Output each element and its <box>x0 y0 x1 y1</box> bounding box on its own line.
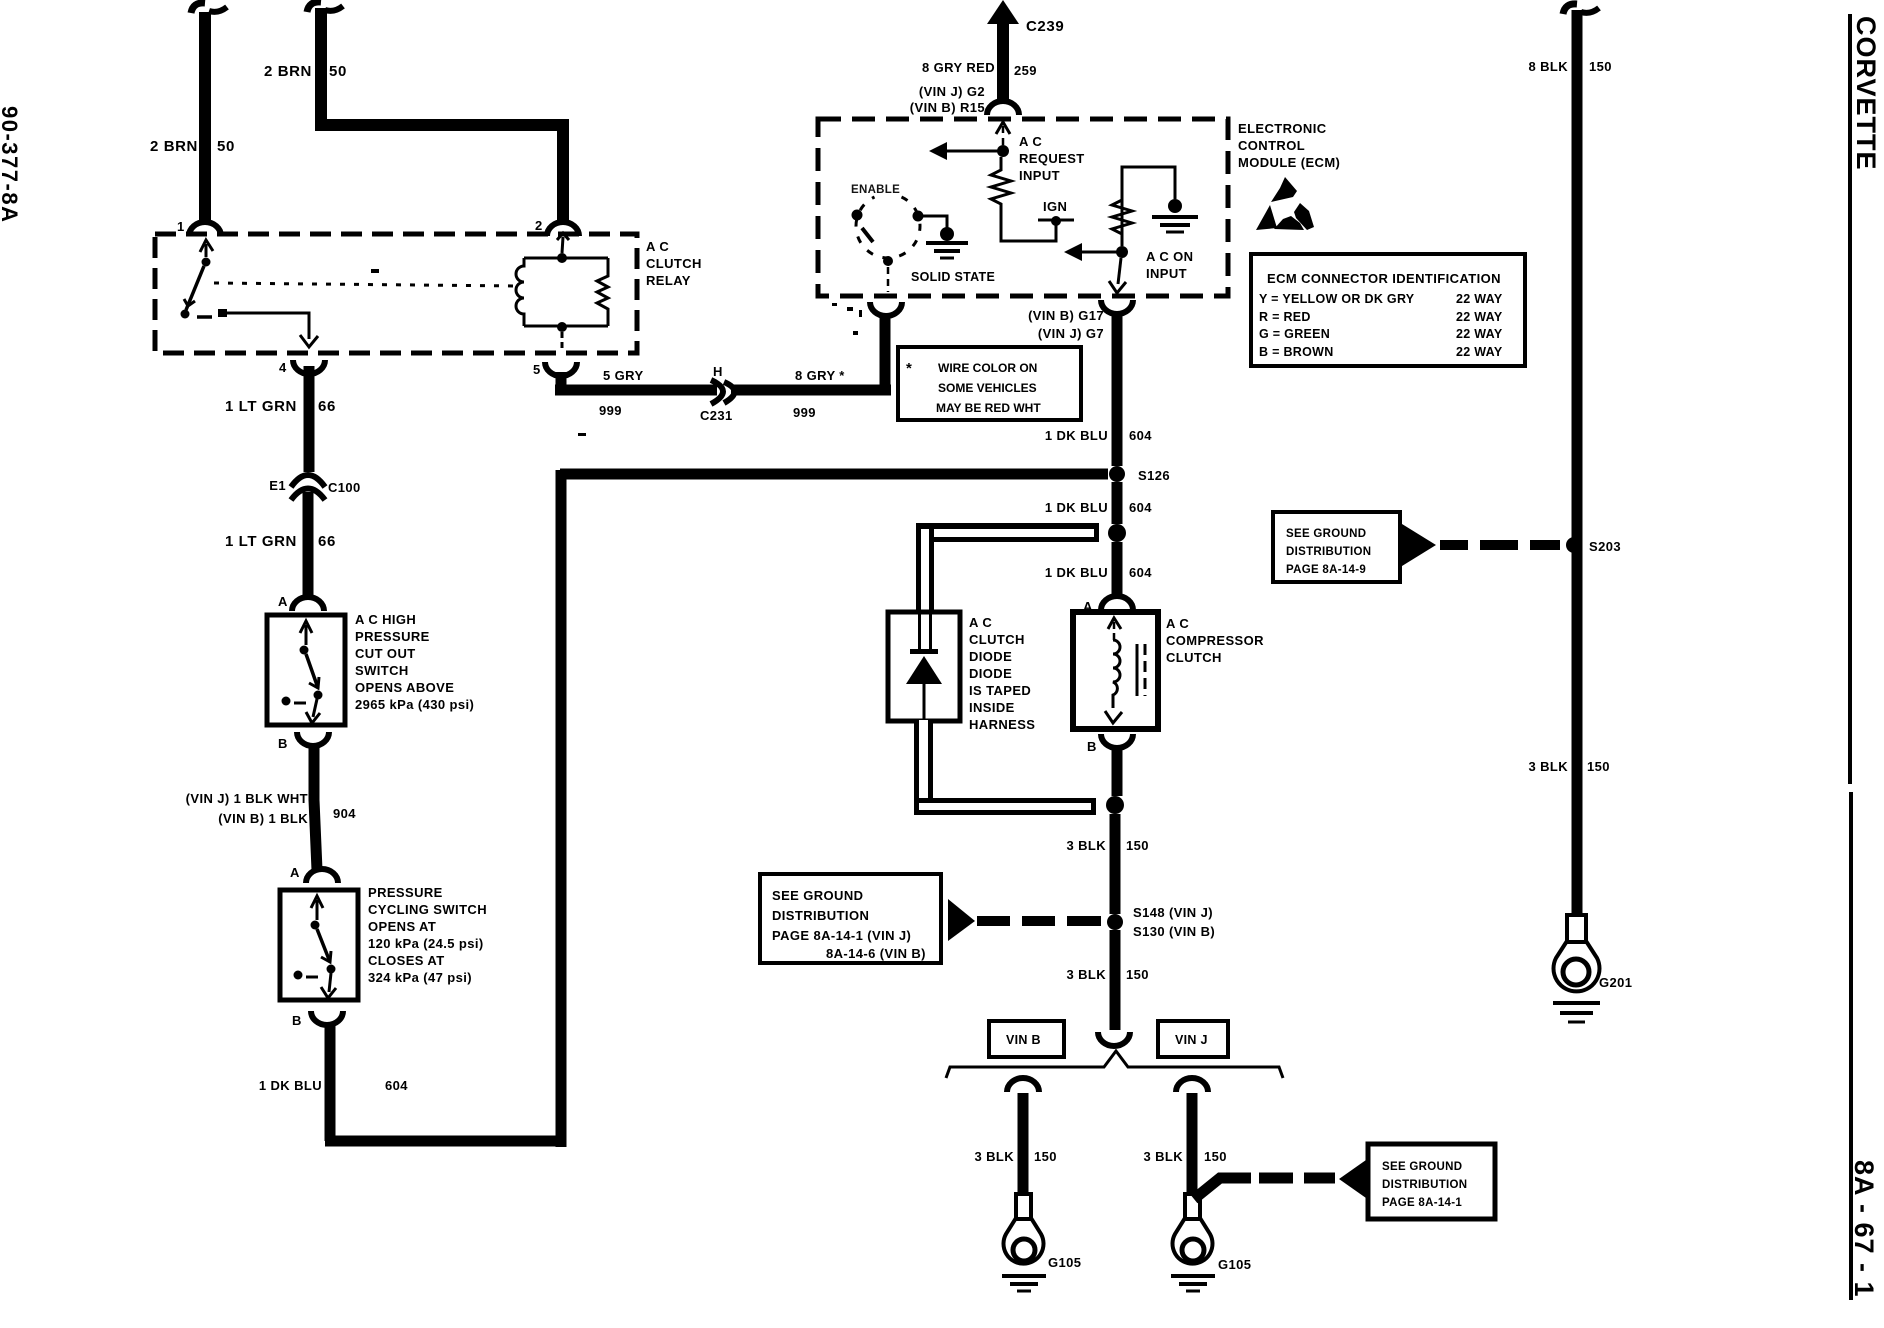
svg-text:S130 (VIN B): S130 (VIN B) <box>1133 924 1215 939</box>
clutch plates <box>1136 644 1139 696</box>
wire 1 DK BLU 604 (tap to compressor clutch) <box>1112 542 1123 598</box>
svg-text:150: 150 <box>1126 967 1149 982</box>
svg-text:150: 150 <box>1034 1149 1057 1164</box>
svg-text:B = BROWN: B = BROWN <box>1259 345 1334 359</box>
svg-text:*: * <box>906 360 912 377</box>
svg-text:HARNESS: HARNESS <box>969 717 1035 732</box>
svg-text:B: B <box>292 1013 302 1028</box>
svg-text:A: A <box>290 865 300 880</box>
svg-text:1 LT GRN: 1 LT GRN <box>225 398 297 415</box>
svg-text:SOLID STATE: SOLID STATE <box>911 270 995 284</box>
svg-text:VIN J: VIN J <box>1175 1033 1208 1047</box>
svg-text:MODULE (ECM): MODULE (ECM) <box>1238 155 1340 170</box>
svg-text:A C: A C <box>969 615 992 630</box>
svg-text:CYCLING SWITCH: CYCLING SWITCH <box>368 902 487 917</box>
svg-text:22 WAY: 22 WAY <box>1456 292 1503 306</box>
svg-text:SEE GROUND: SEE GROUND <box>772 888 863 903</box>
svg-text:G105: G105 <box>1048 1255 1081 1270</box>
svg-text:2 BRN: 2 BRN <box>264 63 312 80</box>
svg-text:S148 (VIN J): S148 (VIN J) <box>1133 905 1213 920</box>
svg-text:CLUTCH: CLUTCH <box>646 256 702 271</box>
svg-text:Y = YELLOW OR DK GRY: Y = YELLOW OR DK GRY <box>1259 292 1415 306</box>
svg-text:PAGE 8A-14-1: PAGE 8A-14-1 <box>1382 1197 1462 1209</box>
svg-text:4: 4 <box>279 360 287 375</box>
svg-text:1 LT GRN: 1 LT GRN <box>225 533 297 550</box>
svg-text:OPENS AT: OPENS AT <box>368 919 436 934</box>
connector E1 C100 <box>291 475 325 487</box>
ring terminal G105 (VIN B) <box>1016 1194 1031 1219</box>
svg-text:S126: S126 <box>1138 468 1170 483</box>
splice S126 <box>1109 466 1125 482</box>
wire 1 LT GRN 66 (relay pin 4 to C100) <box>304 366 315 472</box>
svg-text:R = RED: R = RED <box>1259 310 1311 324</box>
VIN J option box <box>1158 1021 1228 1057</box>
svg-text:PRESSURE: PRESSURE <box>355 629 430 644</box>
branch to ground distribution note <box>1194 1178 1251 1199</box>
svg-text:SOME VEHICLES: SOME VEHICLES <box>938 381 1037 395</box>
svg-text:3 BLK: 3 BLK <box>1528 759 1568 774</box>
svg-text:1: 1 <box>177 219 185 234</box>
svg-text:H: H <box>713 364 723 379</box>
svg-text:A: A <box>278 594 288 609</box>
svg-text:A C: A C <box>646 239 669 254</box>
svg-text:RELAY: RELAY <box>646 273 691 288</box>
svg-text:A C ON: A C ON <box>1146 249 1193 264</box>
see ground distribution box (G105) <box>1368 1144 1495 1219</box>
svg-text:E1: E1 <box>269 478 286 493</box>
svg-text:CUT OUT: CUT OUT <box>355 646 416 661</box>
svg-text:3 BLK: 3 BLK <box>1143 1149 1183 1164</box>
svg-text:C231: C231 <box>700 408 733 423</box>
wire 8 GRY RED 259 to C239 <box>997 16 1009 104</box>
svg-text:2: 2 <box>535 218 543 233</box>
node (diode tap, bottom) <box>1106 796 1124 814</box>
svg-text:PAGE 8A-14-9: PAGE 8A-14-9 <box>1286 564 1366 576</box>
svg-text:3 BLK: 3 BLK <box>1066 838 1106 853</box>
svg-text:2965 kPa (430 psi): 2965 kPa (430 psi) <box>355 697 474 712</box>
wire 2 BRN 50 (left feed to relay pin 1) <box>191 3 205 13</box>
svg-text:8 GRY RED: 8 GRY RED <box>922 60 995 75</box>
svg-text:50: 50 <box>329 63 347 80</box>
svg-text:OPENS ABOVE: OPENS ABOVE <box>355 680 454 695</box>
svg-text:(VIN B) R15: (VIN B) R15 <box>910 100 985 115</box>
svg-text:A C HIGH: A C HIGH <box>355 612 416 627</box>
A/C compressor clutch box <box>1073 612 1158 729</box>
svg-text:VIN B: VIN B <box>1006 1033 1041 1047</box>
svg-text:999: 999 <box>599 403 622 418</box>
relay coil and resistor <box>557 233 569 240</box>
A/C clutch diode box <box>888 612 960 721</box>
ECM connector identification box <box>1251 254 1525 366</box>
svg-text:B: B <box>1087 739 1097 754</box>
ground G105 (VIN J) <box>1171 1274 1215 1278</box>
svg-text:PRESSURE: PRESSURE <box>368 885 443 900</box>
wire 8 BLK 150 (right trunk) <box>1563 4 1577 14</box>
note: wire color box <box>898 347 1081 420</box>
ground G201 <box>1553 1001 1600 1005</box>
wire 1 DK BLU 604 (cycling switch to splice run) <box>325 470 566 1147</box>
svg-text:DISTRIBUTION: DISTRIBUTION <box>1286 546 1371 558</box>
relay switch (pins 1-4) <box>200 240 213 252</box>
splice S148/S130 <box>1107 914 1123 930</box>
wire from relay branch to S126 <box>560 469 1108 480</box>
svg-text:SEE GROUND: SEE GROUND <box>1382 1161 1462 1173</box>
svg-text:66: 66 <box>318 533 336 550</box>
svg-text:C100: C100 <box>328 480 361 495</box>
ECM pin (solid state, bottom) <box>870 302 902 316</box>
ECM pin (A/C request, top) <box>987 101 1019 115</box>
svg-text:DISTRIBUTION: DISTRIBUTION <box>1382 1179 1467 1191</box>
svg-text:(VIN B) 1 BLK: (VIN B) 1 BLK <box>218 811 308 826</box>
svg-text:G = GREEN: G = GREEN <box>1259 327 1330 341</box>
svg-text:604: 604 <box>1129 565 1152 580</box>
switch symbol (cycling) <box>311 896 323 908</box>
svg-text:22 WAY: 22 WAY <box>1456 327 1503 341</box>
svg-text:DIODE: DIODE <box>969 666 1012 681</box>
svg-text:(VIN J) G7: (VIN J) G7 <box>1038 326 1104 341</box>
svg-text:(VIN B) G17: (VIN B) G17 <box>1028 308 1104 323</box>
wire 1 BLK WHT 904 (cutout to cycling switch) <box>314 744 317 870</box>
wire (clutch to diode tap bottom) <box>1112 747 1123 796</box>
svg-text:CORVETTE: CORVETTE <box>1851 16 1881 171</box>
svg-text:CLUTCH: CLUTCH <box>969 632 1025 647</box>
svg-text:INPUT: INPUT <box>1146 266 1187 281</box>
svg-text:REQUEST: REQUEST <box>1019 151 1085 166</box>
svg-text:150: 150 <box>1587 759 1610 774</box>
wire 5 GRY 999 (relay pin 5 to ECM) <box>555 372 717 390</box>
resistor (A/C request) <box>991 157 1056 241</box>
see ground distribution box (S203) <box>1273 512 1400 582</box>
svg-text:8A-14-6 (VIN B): 8A-14-6 (VIN B) <box>826 946 926 961</box>
arrow to splice S148 <box>948 899 975 941</box>
IGN tick <box>1051 216 1061 226</box>
svg-text:999: 999 <box>793 405 816 420</box>
svg-text:A C: A C <box>1019 134 1042 149</box>
svg-text:ELECTRONIC: ELECTRONIC <box>1238 121 1327 136</box>
pressure cycling switch box <box>280 890 358 1000</box>
svg-text:90-377-8A: 90-377-8A <box>0 106 22 223</box>
wire 2 BRN 50 (feed to relay pin 2) <box>307 2 321 12</box>
svg-text:CLOSES AT: CLOSES AT <box>368 953 445 968</box>
diode D1 <box>910 649 938 654</box>
svg-text:8A - 67 - 1: 8A - 67 - 1 <box>1849 1160 1879 1298</box>
wire 3 BLK 150 (tap to S148) <box>1110 814 1121 914</box>
svg-text:CLUTCH: CLUTCH <box>1166 650 1222 665</box>
svg-text:COMPRESSOR: COMPRESSOR <box>1166 633 1264 648</box>
svg-text:DIODE: DIODE <box>969 649 1012 664</box>
svg-text:IGN: IGN <box>1043 199 1067 214</box>
switch symbol (cutout) <box>300 621 312 633</box>
wire 1 DK BLU 604 (S126 to diode tap) <box>1112 482 1123 524</box>
svg-text:3 BLK: 3 BLK <box>1066 967 1106 982</box>
svg-text:A C: A C <box>1166 616 1189 631</box>
ground wire (VIN J) <box>1176 1078 1208 1092</box>
svg-text:5 GRY: 5 GRY <box>603 368 644 383</box>
ECM pin (A/C on, bottom) <box>1101 300 1133 314</box>
hollow wire (diode bypass, top run) <box>916 523 1099 542</box>
ring terminal G201 <box>1567 915 1586 942</box>
ESD sensitivity symbol <box>1271 177 1297 202</box>
A/C high pressure cut out switch box <box>267 615 345 725</box>
wire 3 BLK 150 (S148 to VIN split) <box>1110 930 1121 1030</box>
A/C request input node <box>996 122 1010 134</box>
svg-text:22 WAY: 22 WAY <box>1456 345 1503 359</box>
electronic control module (ECM) dashed box <box>818 119 1228 296</box>
svg-text:CONTROL: CONTROL <box>1238 138 1305 153</box>
hollow wire (diode bypass, bottom run) <box>914 720 933 812</box>
svg-text:150: 150 <box>1126 838 1149 853</box>
svg-text:B: B <box>278 736 288 751</box>
ground (A/C on) <box>1168 199 1182 213</box>
svg-text:3 BLK: 3 BLK <box>974 1149 1014 1164</box>
svg-text:1 DK BLU: 1 DK BLU <box>1045 565 1108 580</box>
svg-text:INPUT: INPUT <box>1019 168 1060 183</box>
svg-text:22 WAY: 22 WAY <box>1456 310 1503 324</box>
svg-text:G105: G105 <box>1218 1257 1251 1272</box>
svg-text:(VIN J) G2: (VIN J) G2 <box>919 84 985 99</box>
see ground distribution box (S148/S130) <box>760 874 941 963</box>
svg-text:8 BLK: 8 BLK <box>1528 59 1568 74</box>
wire 1 LT GRN 66 (C100 to pressure cutout switch) <box>303 492 314 600</box>
svg-text:120 kPa (24.5 psi): 120 kPa (24.5 psi) <box>368 936 484 951</box>
node (diode tap, top) <box>1108 524 1126 542</box>
ground (solid state) <box>918 216 947 228</box>
svg-text:IS TAPED: IS TAPED <box>969 683 1031 698</box>
svg-text:5: 5 <box>533 362 541 377</box>
svg-text:66: 66 <box>318 398 336 415</box>
svg-text:ECM CONNECTOR IDENTIFICATION: ECM CONNECTOR IDENTIFICATION <box>1267 271 1501 286</box>
splice S203 <box>1566 537 1582 553</box>
svg-text:324 kPa (47 psi): 324 kPa (47 psi) <box>368 970 472 985</box>
svg-text:MAY BE RED WHT: MAY BE RED WHT <box>936 401 1041 415</box>
svg-text:DISTRIBUTION: DISTRIBUTION <box>772 908 869 923</box>
svg-text:50: 50 <box>217 138 235 155</box>
svg-text:WIRE COLOR ON: WIRE COLOR ON <box>938 361 1037 375</box>
wire end hook <box>1098 1032 1130 1046</box>
svg-text:(VIN J) 1 BLK WHT: (VIN J) 1 BLK WHT <box>186 791 308 806</box>
svg-text:2 BRN: 2 BRN <box>150 138 198 155</box>
svg-text:INSIDE: INSIDE <box>969 700 1015 715</box>
option split brace <box>946 1051 1283 1078</box>
svg-text:1 DK BLU: 1 DK BLU <box>259 1078 322 1093</box>
svg-text:604: 604 <box>1129 500 1152 515</box>
svg-text:1 DK BLU: 1 DK BLU <box>1045 428 1108 443</box>
svg-text:604: 604 <box>1129 428 1152 443</box>
ground G105 (VIN B) <box>1002 1274 1046 1278</box>
svg-text:ENABLE: ENABLE <box>851 184 900 196</box>
ground wire (VIN B) <box>1007 1078 1039 1092</box>
connector H C231 <box>711 380 723 404</box>
svg-text:SEE GROUND: SEE GROUND <box>1286 528 1366 540</box>
page border line (right) <box>1848 14 1852 784</box>
svg-text:150: 150 <box>1204 1149 1227 1164</box>
svg-text:1 DK BLU: 1 DK BLU <box>1045 500 1108 515</box>
svg-text:SWITCH: SWITCH <box>355 663 409 678</box>
svg-text:604: 604 <box>385 1078 408 1093</box>
svg-text:S203: S203 <box>1589 539 1621 554</box>
A/C on input branch <box>1122 167 1175 246</box>
relay actuation dotted link <box>214 283 518 286</box>
svg-text:G201: G201 <box>1599 975 1632 990</box>
VIN B option box <box>989 1021 1064 1057</box>
svg-text:150: 150 <box>1589 59 1612 74</box>
arrow to splice S203 <box>1402 524 1436 566</box>
wire 1 DK BLU 604 (ECM to S126) <box>1112 314 1123 466</box>
svg-text:C239: C239 <box>1026 18 1064 35</box>
svg-text:904: 904 <box>333 806 356 821</box>
A/C clutch relay dashed box <box>155 234 637 353</box>
ring terminal G105 (VIN J) <box>1185 1194 1200 1219</box>
svg-text:PAGE 8A-14-1 (VIN J): PAGE 8A-14-1 (VIN J) <box>772 928 911 943</box>
svg-text:8 GRY *: 8 GRY * <box>795 368 845 383</box>
svg-text:259: 259 <box>1014 63 1037 78</box>
clutch coil <box>1108 618 1121 629</box>
